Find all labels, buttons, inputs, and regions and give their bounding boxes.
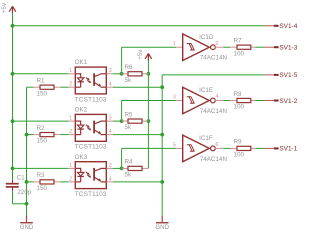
svg-text:1: 1	[173, 41, 176, 47]
wire R8 to SV1-2	[255, 100, 264, 102]
wire OK2 collector to node	[113, 120, 122, 122]
wire IC1D output to R7	[223, 46, 230, 48]
svg-text:SV1-4: SV1-4	[279, 23, 297, 30]
junction +5V OK1	[11, 72, 15, 76]
wire OK1 collector to node	[113, 73, 122, 75]
junction node OK2 collector	[120, 119, 124, 123]
svg-text:5: 5	[173, 142, 176, 148]
wire +5V pullup rail vertical	[147, 60, 149, 168]
svg-text:150: 150	[37, 185, 48, 192]
svg-text:R3: R3	[37, 172, 46, 179]
wire R2 to OK2 pin 2	[61, 134, 69, 136]
wire OK3 emitter to ground rail	[113, 181, 162, 183]
wire R7 to SV1-3	[255, 46, 264, 48]
junction emitter rail OK2	[160, 133, 164, 137]
svg-text:R4: R4	[125, 159, 134, 166]
svg-text:IC1E: IC1E	[199, 87, 213, 94]
junction ground rail C1	[25, 202, 29, 206]
supply +5V P2	[137, 49, 152, 61]
resistor R8 100	[230, 91, 255, 111]
wire R3 left segment	[27, 181, 34, 183]
junction node OK3 collector	[120, 167, 124, 171]
svg-text:OK1: OK1	[75, 59, 88, 66]
svg-text:IC1F: IC1F	[199, 135, 213, 142]
svg-text:100: 100	[234, 50, 245, 57]
svg-text:220p: 220p	[17, 189, 32, 196]
wire emitter ground rail vertical	[161, 75, 163, 216]
svg-text:1: 1	[69, 116, 72, 122]
svg-text:4: 4	[109, 82, 112, 88]
svg-text:SV1-2: SV1-2	[279, 98, 297, 105]
wire C1 bottom to ground rail	[13, 203, 27, 205]
IC1E pin numbers	[173, 94, 219, 100]
svg-text:+5v: +5v	[137, 49, 144, 60]
ground GND left	[20, 216, 34, 231]
wire OK1 emitter to ground rail	[113, 86, 162, 88]
wire to IC1F input	[122, 147, 176, 149]
svg-text:R1: R1	[37, 78, 46, 85]
junction R5 +5V	[147, 119, 151, 123]
OK2 pin numbers	[69, 116, 112, 136]
wire ground rail vertical	[26, 87, 28, 216]
wire R2 left segment	[27, 134, 34, 136]
wire R1 left segment	[27, 86, 34, 88]
wire IC1F output to R9	[223, 147, 230, 149]
resistor R7 100	[230, 38, 255, 58]
svg-text:100: 100	[234, 104, 245, 111]
capacitor C1 220p	[6, 174, 32, 196]
svg-text:C1: C1	[17, 174, 26, 181]
svg-text:2: 2	[69, 82, 72, 88]
svg-text:OK3: OK3	[75, 154, 88, 161]
svg-text:IC1D: IC1D	[199, 34, 214, 41]
resistor R5 5k	[122, 111, 149, 131]
wire +5V to OK3 pin 1	[13, 167, 69, 169]
svg-text:5k: 5k	[125, 172, 133, 179]
junction emitter rail OK1	[160, 85, 164, 89]
optocoupler OK2 TCST1103	[69, 107, 113, 151]
svg-text:R6: R6	[125, 64, 134, 71]
connector pin SV1-2	[265, 98, 298, 105]
svg-text:R2: R2	[37, 125, 46, 132]
wire +5V to OK1 pin 1	[13, 73, 69, 75]
svg-text:2: 2	[69, 176, 72, 182]
svg-text:SV1-3: SV1-3	[279, 45, 297, 52]
svg-text:SV1-5: SV1-5	[279, 72, 297, 79]
supply +5V P1	[1, 2, 16, 13]
resistor R3 150	[34, 172, 61, 192]
svg-text:5k: 5k	[125, 77, 133, 84]
svg-text:TCST1103: TCST1103	[75, 144, 107, 151]
wire OK2 emitter to ground rail	[113, 134, 162, 136]
svg-text:TCST1103: TCST1103	[75, 191, 107, 198]
svg-text:2: 2	[69, 129, 72, 135]
ground GND middle	[155, 216, 169, 231]
IC1D pin numbers	[173, 41, 219, 47]
svg-text:150: 150	[37, 90, 48, 97]
wire R1 to OK1 pin 2	[61, 86, 69, 88]
svg-text:+5v: +5v	[1, 2, 8, 13]
OK3 pin numbers	[69, 163, 112, 183]
svg-text:TCST1103: TCST1103	[75, 96, 107, 103]
wire top rail to SV1-4	[13, 25, 265, 27]
inverter IC1E 74AC14N	[176, 87, 227, 115]
svg-text:5k: 5k	[125, 124, 133, 131]
svg-text:74AC14N: 74AC14N	[200, 156, 228, 163]
svg-text:3: 3	[109, 68, 112, 74]
wire +5V to OK2 pin 1	[13, 120, 69, 122]
wire ground to SV1-5	[162, 74, 264, 76]
svg-text:74AC14N: 74AC14N	[200, 55, 228, 62]
junction ground rail R3	[25, 180, 29, 184]
svg-text:GND: GND	[155, 224, 169, 231]
svg-text:1: 1	[69, 163, 72, 169]
wire +5V left rail vertical	[12, 13, 14, 181]
connector pin SV1-3	[265, 45, 298, 52]
resistor R6 5k	[122, 64, 149, 84]
svg-text:100: 100	[234, 152, 245, 159]
svg-text:74AC14N: 74AC14N	[200, 108, 228, 115]
resistor R2 150	[34, 125, 61, 145]
svg-text:GND: GND	[20, 224, 34, 231]
connector pin SV1-5	[265, 72, 298, 79]
wire to IC1E input	[122, 100, 176, 102]
junction +5V OK3	[11, 167, 15, 171]
resistor R9 100	[230, 139, 255, 159]
svg-text:SV1-1: SV1-1	[279, 146, 297, 153]
optocoupler OK1 TCST1103	[69, 59, 113, 103]
svg-text:4: 4	[109, 176, 112, 182]
svg-text:R5: R5	[125, 111, 134, 118]
inverter IC1F 74AC14N	[176, 135, 227, 163]
inverter IC1D 74AC14N	[176, 34, 227, 62]
svg-text:4: 4	[109, 129, 112, 135]
wire R9 to SV1-1	[255, 147, 264, 149]
junction top rail	[11, 24, 15, 28]
wire node up to IC1F input	[121, 148, 123, 168]
OK1 pin numbers	[69, 68, 112, 87]
resistor R4 5k	[122, 159, 149, 179]
connector pin SV1-1	[265, 146, 298, 153]
junction emitter rail OK3	[160, 180, 164, 184]
svg-text:4: 4	[215, 94, 218, 100]
IC1F pin numbers	[173, 142, 219, 148]
svg-text:OK2: OK2	[75, 107, 88, 114]
svg-text:1: 1	[69, 68, 72, 74]
resistor R1 150	[34, 78, 61, 98]
connector pin SV1-4	[265, 23, 298, 30]
svg-text:2: 2	[215, 41, 218, 47]
svg-text:R7: R7	[234, 38, 243, 45]
svg-text:3: 3	[173, 95, 176, 101]
junction R6 +5V	[147, 72, 151, 76]
wire node up to IC1D input	[121, 47, 123, 74]
wire R3 to OK3 pin 2	[61, 181, 69, 183]
junction ground rail R2	[25, 133, 29, 137]
svg-text:6: 6	[215, 142, 218, 148]
svg-text:150: 150	[37, 138, 48, 145]
junction +5V OK2	[11, 119, 15, 123]
optocoupler OK3 TCST1103	[69, 154, 113, 198]
wire C1 bottom down	[12, 190, 14, 203]
wire node up to IC1E input	[121, 101, 123, 122]
svg-text:3: 3	[109, 163, 112, 169]
junction node OK1 collector	[120, 72, 124, 76]
wire OK3 collector to node	[113, 167, 122, 169]
wire IC1E output to R8	[223, 100, 230, 102]
wire to IC1D input	[122, 46, 176, 48]
svg-text:3: 3	[109, 116, 112, 122]
svg-text:R8: R8	[234, 91, 243, 98]
svg-text:R9: R9	[234, 139, 243, 146]
